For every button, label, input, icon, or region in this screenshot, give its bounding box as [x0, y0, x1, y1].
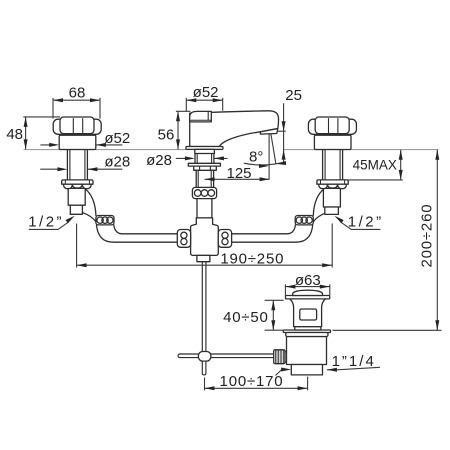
dim 40-50 [265, 300, 284, 330]
tee left union [177, 230, 190, 248]
spout shank stack [195, 149, 215, 153]
horizontal lever rod [178, 354, 274, 358]
drain flange skirt [286, 333, 328, 337]
arrows dim 68 [53, 98, 63, 102]
spout threaded tube [196, 170, 213, 187]
svg-text:8°: 8° [249, 149, 263, 166]
svg-text:ø28: ø28 [146, 152, 172, 169]
left tap (cold valve) [53, 117, 101, 214]
arrows dim dia63 [285, 285, 295, 289]
tap mounting nut [62, 180, 93, 184]
arrow leader 1/2 left [66, 216, 75, 223]
left pipe union nut [96, 216, 114, 225]
svg-text:1/2”: 1/2” [28, 213, 64, 230]
dim 200-260 [333, 150, 442, 331]
drain neck step [295, 327, 321, 330]
tee bottom nut [197, 255, 210, 261]
dim 25 outlet height [278, 103, 286, 162]
drain plug dome [293, 290, 323, 295]
drain neck [290, 299, 325, 327]
arrows dim 125 [205, 177, 215, 181]
deck reference line [24, 149, 439, 151]
dim dia63 [285, 284, 329, 295]
tap shank tube [67, 150, 87, 180]
arrow leader 1/2 right [334, 216, 343, 223]
svg-text:1/2”: 1/2” [348, 213, 384, 230]
dim 190-250 [77, 224, 333, 268]
right supply pipe to tee (mirror of left about x=204.6) [232, 189, 326, 242]
spout top cap [190, 111, 212, 122]
leader 1/2 left [29, 222, 69, 229]
svg-text:1”1/4: 1”1/4 [332, 353, 376, 370]
tap handle [53, 119, 101, 134]
arrows dim 190-250 [77, 263, 87, 267]
svg-text:68: 68 [69, 84, 86, 101]
dim 48 handle height [23, 117, 60, 149]
left supply pipe to tee [83, 189, 177, 242]
tee cross body [191, 218, 219, 256]
leader 1/2 right [341, 222, 381, 229]
tee riser tube [197, 199, 212, 218]
dim 45MAX [347, 150, 403, 180]
drain flange upper [283, 330, 330, 333]
dim 68 handle width [53, 98, 100, 119]
drain knurled adjuster [285, 352, 287, 362]
svg-text:200÷260: 200÷260 [419, 204, 436, 268]
dim spout dia52 [186, 98, 222, 111]
spout body [190, 111, 279, 147]
arrows left tap dia28 [57, 167, 67, 171]
arrows spout dia28 [185, 156, 195, 160]
svg-text:ø52: ø52 [193, 84, 219, 101]
leader 1inch 1/4 [276, 367, 381, 375]
arrows 8 degree arc [259, 164, 269, 168]
svg-text:25: 25 [285, 87, 302, 104]
pop-up rod lower [202, 361, 206, 375]
drain overflow window [300, 309, 317, 320]
tap escutcheon [59, 135, 96, 149]
svg-text:ø28: ø28 [104, 154, 130, 171]
svg-text:56: 56 [158, 127, 175, 144]
svg-text:40÷50: 40÷50 [223, 309, 269, 326]
spout outlet aerator [260, 129, 278, 135]
tap 1/2 inch tail [70, 205, 82, 214]
dim 125 spout reach [205, 134, 270, 179]
arrows leader 1inch 1/4 [281, 368, 291, 372]
svg-text:ø52: ø52 [104, 130, 130, 147]
arrows dim 45MAX [399, 150, 403, 160]
dim leader left tap dia28 [40, 168, 122, 170]
arrows dim 25 [282, 121, 286, 131]
svg-text:100÷170: 100÷170 [220, 373, 284, 390]
arrows dim 200-260 [435, 150, 439, 160]
svg-text:125: 125 [227, 165, 252, 182]
arrows left tap dia52 [49, 143, 59, 147]
arrows spout dia52 [186, 98, 196, 102]
drain tailpiece [291, 365, 322, 375]
svg-text:45MAX: 45MAX [353, 158, 397, 173]
dim leader spout dia28 [176, 157, 228, 159]
pop-up rod upper [202, 262, 206, 352]
arrows dim 40-50 [271, 300, 275, 310]
arrows dim 56 [176, 111, 180, 121]
tap lower body [68, 188, 85, 205]
tee right union [218, 230, 231, 248]
spout washer [188, 163, 220, 166]
dim leader left tap dia52 [40, 144, 122, 146]
arrows dim 48 [24, 117, 28, 127]
arrows dim 100-170 [205, 386, 215, 390]
right tap (hot valve) [308, 117, 356, 214]
drain plug plate [286, 296, 330, 299]
svg-text:ø63: ø63 [295, 272, 321, 289]
dim 8 degree angle lines [271, 134, 276, 164]
spout escutcheon flange [186, 147, 223, 150]
dim 100-170 [205, 377, 308, 391]
lever ball joint [198, 352, 211, 362]
tee union nut [192, 187, 216, 198]
dim 56 spout height [176, 111, 191, 149]
spout locknut [194, 166, 217, 170]
svg-text:190÷250: 190÷250 [220, 251, 284, 268]
drain body cup [287, 337, 327, 365]
svg-text:48: 48 [6, 126, 23, 143]
